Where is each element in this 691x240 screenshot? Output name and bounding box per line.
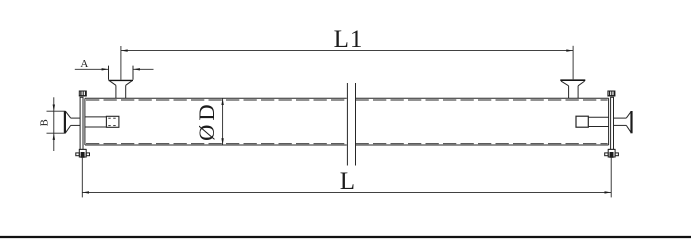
right bottom drain fitting: [605, 149, 619, 157]
A dimension line right segment: [133, 68, 153, 70]
shell bottom line (left of break): [85, 144, 347, 146]
left internal tube socket: [106, 116, 119, 127]
right internal tube socket: [576, 116, 588, 127]
A arrow right: [133, 68, 140, 70]
right top nozzle centerline / L1 extension: [572, 46, 574, 80]
left cone face: [64, 111, 66, 133]
svg-text:B: B: [40, 119, 51, 126]
B dimension line: [53, 97, 55, 151]
break line left: [346, 83, 348, 166]
L1 dimension line: [121, 50, 573, 52]
left top nozzle neck: [115, 85, 117, 98]
shell inner hidden line bottom right: [356, 143, 608, 145]
break line right: [355, 83, 357, 166]
left top nozzle ferrule bottom: [109, 79, 134, 81]
bottom border line: [0, 236, 691, 238]
right top nozzle neck: [568, 86, 570, 99]
left tubesheet line: [84, 98, 86, 145]
left flange plate: [80, 97, 83, 150]
shell bottom line (right of break): [356, 144, 609, 146]
shell inner hidden line top right: [356, 99, 608, 101]
A dimension line left segment: [75, 68, 109, 70]
svg-text:A: A: [80, 58, 88, 70]
svg-text:L1: L1: [334, 26, 364, 53]
L1 arrow right: [566, 49, 573, 51]
left top nozzle ferrule side right: [132, 66, 134, 80]
B arrow top: [53, 105, 55, 112]
left cone taper: [66, 111, 71, 118]
B dimension extension lines: [47, 110, 66, 112]
right cone face: [630, 111, 632, 133]
A arrow left: [102, 68, 109, 70]
L arrow right: [605, 191, 612, 193]
shell inner hidden line top left: [86, 99, 347, 101]
right flange plate: [611, 97, 614, 150]
right top nozzle taper: [561, 81, 569, 86]
svg-text:L: L: [340, 168, 355, 195]
ØD arrow bottom: [221, 138, 223, 145]
left nozzle neck (cone to flange): [71, 117, 80, 119]
left top nozzle centerline / L1 extension: [120, 46, 122, 80]
ØD arrow top: [221, 98, 223, 105]
L arrow left: [82, 191, 89, 193]
right top nozzle cap: [560, 79, 585, 81]
shell top line (right of break): [356, 97, 609, 99]
left flange top bolt: [79, 91, 87, 96]
ØD dimension line: [222, 98, 224, 145]
right internal tube lines: [588, 116, 608, 118]
right cone taper: [626, 111, 631, 118]
left internal tube lines: [85, 116, 107, 118]
right drain centerline / L extension line: [610, 157, 612, 198]
shell top line (left of break): [85, 97, 347, 99]
left drain centerline / L extension line: [81, 157, 83, 198]
B arrow bottom: [53, 133, 55, 140]
right flange top bolt: [608, 91, 616, 96]
L dimension line: [82, 191, 611, 193]
svg-text:ØD: ØD: [194, 100, 219, 141]
right nozzle neck (flange to cone): [614, 117, 627, 119]
left top nozzle ferrule side left: [108, 66, 110, 80]
right tubesheet line: [608, 98, 610, 145]
left bottom drain fitting: [76, 149, 90, 157]
shell inner hidden line bottom left: [86, 143, 347, 145]
left top nozzle taper: [110, 81, 116, 86]
L1 arrow left: [121, 49, 128, 51]
